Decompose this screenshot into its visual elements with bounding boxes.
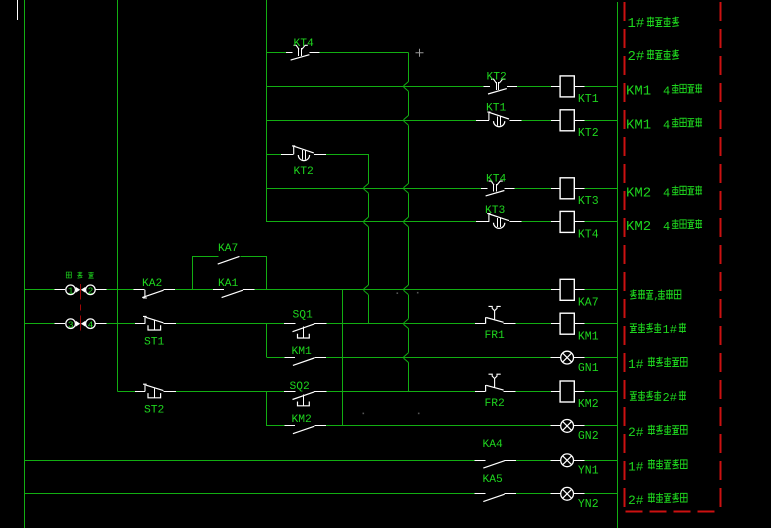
wire row6 bbox=[267, 221, 476, 223]
wire to terminal 1 bbox=[55, 289, 65, 291]
wire vertical from node A down to SQ2 branch (x=342) bbox=[342, 290, 344, 426]
svg-text:2#: 2# bbox=[628, 425, 644, 440]
svg-text:KA5: KA5 bbox=[483, 474, 504, 486]
svg-text:KT2: KT2 bbox=[294, 166, 314, 178]
terminal arrow left of 4 bbox=[82, 322, 85, 326]
label manual start pump2 (row10) bbox=[630, 392, 637, 401]
wire row10 branch to FR2 bbox=[326, 391, 475, 393]
terminal circle 2 bbox=[86, 285, 96, 295]
svg-text:KM1: KM1 bbox=[292, 346, 313, 358]
wire KA7 branch top left bbox=[192, 256, 218, 258]
wire row13 to lamp bbox=[516, 493, 550, 495]
svg-text:1#: 1# bbox=[628, 357, 644, 372]
svg-text:KT2: KT2 bbox=[487, 72, 507, 84]
svg-text:KM2: KM2 bbox=[626, 185, 651, 201]
contact FR2 (thermal overload NC) bbox=[475, 391, 485, 393]
wire row5 to coil bbox=[515, 188, 551, 190]
svg-text:ST2: ST2 bbox=[144, 404, 164, 416]
svg-text:GN1: GN1 bbox=[578, 362, 599, 375]
svg-text:4: 4 bbox=[88, 320, 94, 331]
contact SQ1 (NO with operator) bbox=[284, 323, 295, 325]
svg-text:KT1: KT1 bbox=[486, 103, 507, 115]
coil KT3 bbox=[551, 188, 560, 190]
wire from terminal 2 bbox=[96, 289, 107, 291]
svg-text:2#: 2# bbox=[663, 391, 677, 405]
coil KT2 bbox=[551, 120, 560, 122]
wire row8 branch to FR1 bbox=[326, 323, 475, 325]
wire row7 KA2-KA1 bbox=[175, 289, 213, 291]
wire KA7 branch left vertical bbox=[192, 256, 194, 290]
contact ST1 (push button NC) bbox=[135, 323, 145, 325]
wire row8 from left bus bbox=[25, 323, 55, 325]
dashed red box left edge bbox=[624, 2, 626, 512]
wire row4 right to vertical bbox=[326, 154, 369, 156]
svg-text:KT1: KT1 bbox=[578, 93, 599, 106]
contact KA5 (NO) bbox=[475, 493, 486, 495]
svg-text:YN2: YN2 bbox=[578, 498, 599, 511]
wire SQ1 branch left vertical bbox=[266, 324, 268, 358]
wire row10 ST2 to branch bbox=[176, 391, 284, 393]
svg-text:4: 4 bbox=[663, 186, 670, 200]
terminal arrow right of 1 bbox=[76, 288, 79, 292]
wire row7 to KA2 bbox=[106, 289, 133, 291]
wire SQ2 branch left vertical bbox=[266, 392, 268, 426]
wire row9 left bbox=[267, 357, 284, 359]
svg-text:KT4: KT4 bbox=[486, 174, 507, 186]
terminal circle 3 bbox=[66, 319, 76, 329]
coil KT4 bbox=[551, 221, 560, 223]
indicator lamp GN2 bbox=[550, 425, 560, 427]
terminal arrow right of 3 bbox=[76, 322, 79, 326]
svg-text:GN2: GN2 bbox=[578, 430, 599, 443]
wire row8 ST1 to branch bbox=[176, 323, 284, 325]
contact KT2 (NC, time delay) bbox=[483, 86, 489, 88]
wire row1 right bbox=[320, 52, 409, 54]
svg-text:YN1: YN1 bbox=[578, 465, 599, 478]
contact KA7 (NO) bbox=[218, 256, 240, 264]
coil KM1 bbox=[551, 323, 560, 325]
contact KT4 (NC, time delay) bbox=[481, 188, 487, 190]
svg-text:1#: 1# bbox=[628, 459, 644, 474]
svg-text:KA7: KA7 bbox=[578, 296, 599, 309]
terminal arrow left of 2 bbox=[82, 288, 85, 292]
contact KA1 (NO) bbox=[213, 289, 224, 291]
terminal circle 4 bbox=[86, 319, 96, 329]
svg-text:2#: 2# bbox=[628, 493, 644, 508]
wire row7 to coil KA7 bbox=[255, 289, 552, 291]
contact KT3 (delayed, cup) bbox=[476, 221, 489, 223]
indicator lamp YN2 bbox=[550, 493, 560, 495]
svg-text:4: 4 bbox=[663, 220, 670, 234]
wire to terminal 3 bbox=[55, 323, 65, 325]
svg-text:FR1: FR1 bbox=[485, 330, 506, 342]
dashed red box right edge bbox=[720, 2, 722, 512]
wire row3 to coil bbox=[521, 120, 551, 122]
wire KA7 branch top right bbox=[241, 256, 268, 258]
wire vertical bus at x=267 (top) bbox=[266, 0, 268, 222]
wire from terminal 4 bbox=[96, 323, 107, 325]
white tick top-left bbox=[17, 0, 19, 20]
label high start mid stop (row7) bbox=[630, 289, 637, 299]
contact FR1 (thermal overload NC) bbox=[475, 323, 485, 325]
wire row1 left bbox=[267, 52, 286, 54]
coil KM2 bbox=[551, 391, 560, 393]
wire row10 left bbox=[118, 391, 135, 393]
svg-text:,: , bbox=[654, 292, 660, 303]
wire row10 to coil KM2 bbox=[515, 391, 551, 393]
svg-text:1: 1 bbox=[68, 286, 74, 297]
svg-text:4: 4 bbox=[663, 84, 670, 98]
svg-text:SQ2: SQ2 bbox=[290, 381, 310, 393]
wire row5 bbox=[267, 188, 481, 190]
svg-text:KM1: KM1 bbox=[626, 117, 651, 133]
wire vertical from KT2 contact to ST1 row with hops (x=369) bbox=[368, 154, 370, 183]
svg-text:KM1: KM1 bbox=[578, 330, 599, 343]
contact KT2 (delayed, cup) bbox=[281, 154, 294, 156]
wire left bus L1 bbox=[24, 0, 26, 528]
red separator line between terminals bbox=[80, 284, 82, 300]
wire vertical from KT4 contact to ST2 row with hops (x=408) bbox=[408, 53, 410, 82]
svg-text:KA7: KA7 bbox=[218, 243, 238, 255]
svg-text:1#: 1# bbox=[628, 16, 645, 32]
wire row11 to lamp bbox=[326, 425, 551, 427]
wire row8 to ST1 bbox=[106, 323, 135, 325]
svg-text:SQ1: SQ1 bbox=[293, 310, 314, 322]
terminal circle 1 bbox=[66, 285, 76, 295]
svg-text:4: 4 bbox=[663, 118, 670, 132]
contact KT4 (NC, time delay) bbox=[286, 52, 292, 54]
contact KA2 (NO) bbox=[134, 289, 145, 291]
wire row2 bbox=[267, 86, 483, 88]
wire row7 from left bus bbox=[25, 289, 55, 291]
wire row3 bbox=[267, 120, 476, 122]
stray dots bbox=[397, 292, 399, 294]
wire row4 left bbox=[267, 154, 281, 156]
wire right bus bbox=[617, 2, 619, 528]
indicator lamp YN1 bbox=[550, 460, 560, 462]
svg-text:2: 2 bbox=[88, 286, 94, 297]
wire row12 to lamp bbox=[516, 460, 550, 462]
svg-text:1#: 1# bbox=[663, 323, 677, 337]
svg-text:KM2: KM2 bbox=[292, 414, 312, 426]
svg-text:ST1: ST1 bbox=[144, 337, 165, 349]
svg-text:2#: 2# bbox=[628, 49, 645, 65]
wire row12 left bbox=[25, 460, 475, 462]
svg-text:KT3: KT3 bbox=[578, 195, 599, 208]
wire vertical bus at x=117 bbox=[117, 0, 119, 392]
indicator lamp GN1 bbox=[550, 357, 560, 359]
svg-text:KA1: KA1 bbox=[218, 278, 239, 290]
svg-text:3: 3 bbox=[68, 320, 74, 331]
svg-text:KT4: KT4 bbox=[294, 38, 315, 50]
svg-text:KT4: KT4 bbox=[578, 229, 599, 242]
wire row8 to coil KM1 bbox=[515, 323, 551, 325]
svg-text:KA2: KA2 bbox=[142, 278, 162, 290]
svg-text:KM2: KM2 bbox=[578, 398, 599, 411]
svg-text:KM2: KM2 bbox=[626, 219, 651, 235]
svg-text:KT3: KT3 bbox=[485, 205, 506, 217]
contact KM1 (NO aux) bbox=[284, 357, 295, 359]
wire KA7 branch right vertical bbox=[266, 256, 268, 290]
svg-text:KT2: KT2 bbox=[578, 127, 599, 140]
wire row6 to coil bbox=[521, 221, 551, 223]
dashed red box bottom edge bbox=[626, 511, 721, 513]
wire row11 left bbox=[267, 425, 284, 427]
wire row13 left bbox=[25, 493, 475, 495]
svg-text:FR2: FR2 bbox=[485, 398, 505, 410]
svg-text:KA4: KA4 bbox=[483, 439, 504, 451]
marker cross bbox=[416, 49, 424, 57]
contact SQ2 (NO with operator) bbox=[284, 391, 295, 393]
contact ST2 (push button NC) bbox=[135, 391, 145, 393]
wire row2 to coil bbox=[517, 86, 551, 88]
contact KT1 (delayed, cup) bbox=[476, 120, 489, 122]
contact KA4 (NO) bbox=[475, 460, 486, 462]
contact KM2 (NO aux) bbox=[284, 425, 295, 427]
coil KA7 bbox=[551, 289, 560, 291]
svg-text:KM1: KM1 bbox=[626, 83, 651, 99]
tiny label above terminals bbox=[66, 272, 71, 278]
label manual start pump1 (row8) bbox=[630, 324, 637, 333]
coil KT1 bbox=[551, 86, 560, 88]
wire row9 to lamp bbox=[326, 357, 551, 359]
